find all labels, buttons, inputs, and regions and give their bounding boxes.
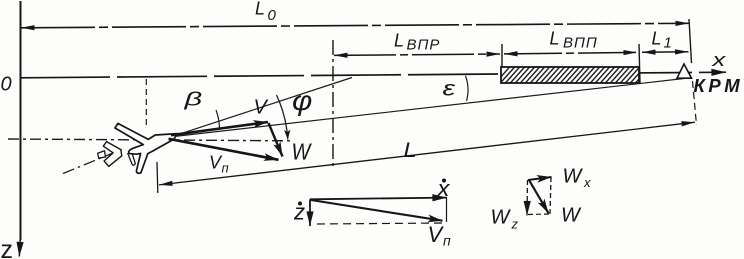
- svg-text:W: W: [561, 205, 582, 227]
- svg-text:1: 1: [664, 35, 672, 52]
- svg-text:W: W: [292, 138, 313, 165]
- svg-text:КРМ: КРМ: [694, 75, 744, 96]
- svg-text:ВПП: ВПП: [563, 35, 598, 52]
- svg-text:β: β: [183, 89, 202, 110]
- svg-text:φ: φ: [292, 86, 312, 117]
- svg-text:ВПР: ВПР: [407, 37, 441, 54]
- svg-text:п: п: [222, 161, 229, 176]
- svg-text:z: z: [1, 236, 14, 259]
- svg-text:x: x: [711, 49, 726, 70]
- svg-text:z: z: [511, 217, 519, 232]
- svg-text:x: x: [583, 175, 591, 190]
- svg-text:0: 0: [268, 7, 277, 24]
- svg-text:п: п: [443, 233, 451, 249]
- svg-text:L: L: [394, 31, 404, 51]
- svg-text:ε: ε: [443, 77, 457, 100]
- svg-text:L: L: [550, 29, 560, 49]
- svg-text:W: W: [563, 166, 584, 188]
- svg-text:V: V: [254, 97, 269, 119]
- svg-text:V: V: [428, 222, 445, 247]
- svg-text:L: L: [652, 29, 662, 49]
- svg-text:L: L: [404, 138, 417, 161]
- svg-text:0: 0: [1, 74, 12, 96]
- svg-text:W: W: [491, 207, 512, 229]
- svg-text:L: L: [255, 0, 265, 19]
